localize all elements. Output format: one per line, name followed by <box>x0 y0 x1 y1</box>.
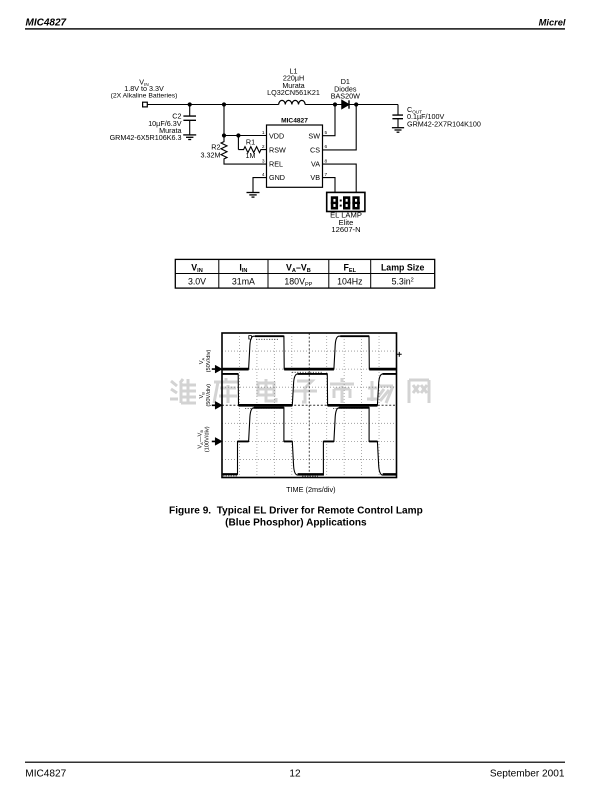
svg-text:Figure 9. Typical EL Driver f: Figure 9. Typical EL Driver for Remote C… <box>169 506 423 517</box>
svg-text:CS: CS <box>310 146 320 155</box>
svg-text:VA–VB: VA–VB <box>286 262 311 274</box>
svg-text:VA: VA <box>311 160 320 169</box>
svg-text:VIN: VIN <box>191 262 202 274</box>
svg-text:3.0V: 3.0V <box>188 276 206 286</box>
svg-text:IIN: IIN <box>239 262 247 274</box>
svg-text:5: 5 <box>325 130 328 136</box>
svg-text:GRM42-6X5R106K6.3: GRM42-6X5R106K6.3 <box>110 133 182 142</box>
svg-text:R1: R1 <box>246 137 255 146</box>
svg-text:4: 4 <box>262 172 265 178</box>
svg-text:(Blue Phosphor) Applications: (Blue Phosphor) Applications <box>225 518 367 529</box>
svg-text:31mA: 31mA <box>232 276 255 286</box>
svg-text:VB: VB <box>310 173 320 182</box>
svg-text:7: 7 <box>325 172 328 178</box>
svg-text:BAS20W: BAS20W <box>331 92 360 101</box>
svg-text:(2X Alkaline Batteries): (2X Alkaline Batteries) <box>111 93 178 100</box>
svg-text:MIC4827: MIC4827 <box>281 117 308 124</box>
svg-text:GND: GND <box>269 173 285 182</box>
svg-text:3.32M: 3.32M <box>201 151 221 160</box>
svg-text:1M: 1M <box>246 151 256 160</box>
svg-text:FEL: FEL <box>344 262 357 274</box>
svg-text:MIC4827: MIC4827 <box>26 18 67 29</box>
svg-text:(100V/div): (100V/div) <box>204 426 210 452</box>
svg-text:8: 8 <box>325 158 328 164</box>
svg-text:(50V/div): (50V/div) <box>206 384 212 407</box>
svg-text:GRM42-2X7R104K100: GRM42-2X7R104K100 <box>407 120 481 129</box>
svg-text:September 2001: September 2001 <box>490 768 565 779</box>
svg-text:12: 12 <box>289 768 301 779</box>
svg-text:TIME (2ms/div): TIME (2ms/div) <box>286 485 335 494</box>
svg-text:104Hz: 104Hz <box>337 276 362 286</box>
svg-text:5.3in2: 5.3in2 <box>392 276 414 286</box>
svg-text:Lamp Size: Lamp Size <box>381 262 425 272</box>
svg-text:12607-N: 12607-N <box>331 225 360 234</box>
svg-text:2: 2 <box>262 144 265 150</box>
svg-text:VB: VB <box>199 392 205 399</box>
svg-text:REL: REL <box>269 160 283 169</box>
svg-text:1: 1 <box>262 130 265 136</box>
svg-text:Micrel: Micrel <box>539 18 566 28</box>
svg-text:3: 3 <box>262 158 265 164</box>
svg-text:VDD: VDD <box>269 131 284 140</box>
svg-text:180VPP: 180VPP <box>284 276 312 288</box>
svg-text:VA: VA <box>199 357 205 364</box>
svg-text:VA—VB: VA—VB <box>198 430 204 449</box>
svg-text:6: 6 <box>325 144 328 150</box>
svg-text:MIC4827: MIC4827 <box>25 768 66 779</box>
svg-text:(50V/div): (50V/div) <box>206 350 212 373</box>
svg-text:RSW: RSW <box>269 146 286 155</box>
svg-text:SW: SW <box>308 131 320 140</box>
svg-text:LQ32CN561K21: LQ32CN561K21 <box>267 88 320 97</box>
